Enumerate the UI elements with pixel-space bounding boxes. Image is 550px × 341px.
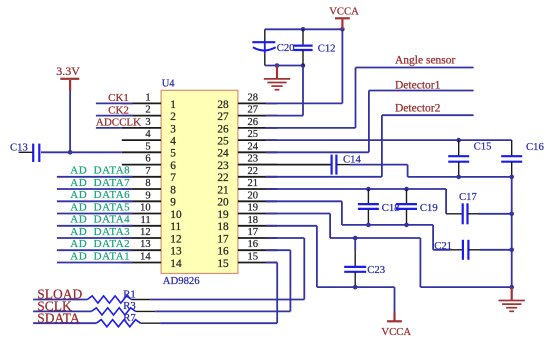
svg-text:C16: C16 — [526, 141, 544, 153]
svg-text:15: 15 — [248, 252, 259, 263]
svg-text:16: 16 — [217, 246, 229, 258]
svg-text:AD DATA5: AD DATA5 — [70, 201, 130, 213]
svg-text:19: 19 — [217, 209, 229, 221]
svg-text:C17: C17 — [459, 191, 477, 203]
svg-text:20: 20 — [248, 190, 259, 201]
svg-text:26: 26 — [248, 117, 259, 128]
svg-text:1: 1 — [170, 99, 176, 111]
svg-text:21: 21 — [217, 184, 228, 196]
svg-text:27: 27 — [217, 111, 229, 123]
svg-text:22: 22 — [217, 172, 229, 184]
svg-text:24: 24 — [217, 148, 229, 160]
svg-text:9: 9 — [170, 197, 176, 209]
svg-text:6: 6 — [170, 160, 176, 172]
svg-text:Angle sensor: Angle sensor — [395, 54, 456, 66]
svg-text:2: 2 — [170, 111, 176, 123]
svg-text:5: 5 — [170, 148, 176, 160]
svg-text:23: 23 — [217, 160, 229, 172]
svg-text:7: 7 — [145, 166, 150, 177]
svg-text:28: 28 — [217, 99, 229, 111]
svg-text:15: 15 — [217, 258, 229, 270]
svg-text:28: 28 — [248, 92, 259, 103]
svg-text:17: 17 — [217, 233, 229, 245]
svg-text:VCCA: VCCA — [329, 6, 359, 18]
svg-text:25: 25 — [217, 136, 229, 148]
svg-text:R3: R3 — [123, 300, 135, 312]
svg-text:27: 27 — [248, 105, 259, 116]
svg-text:20: 20 — [217, 197, 229, 209]
svg-text:6: 6 — [145, 154, 150, 165]
svg-text:4: 4 — [170, 136, 176, 148]
svg-text:C21: C21 — [434, 240, 452, 252]
svg-text:26: 26 — [217, 123, 229, 135]
svg-text:CK1: CK1 — [108, 92, 129, 104]
svg-text:16: 16 — [248, 239, 259, 250]
svg-text:ADCCLK: ADCCLK — [96, 117, 141, 129]
svg-text:11: 11 — [140, 215, 150, 226]
svg-text:AD DATA4: AD DATA4 — [70, 214, 130, 226]
svg-text:AD DATA1: AD DATA1 — [70, 250, 130, 262]
svg-text:25: 25 — [248, 129, 259, 140]
svg-text:22: 22 — [248, 166, 259, 177]
svg-text:18: 18 — [217, 221, 229, 233]
svg-text:CK2: CK2 — [108, 104, 129, 116]
svg-text:C12: C12 — [318, 43, 336, 55]
svg-text:13: 13 — [170, 246, 182, 258]
svg-text:AD DATA2: AD DATA2 — [70, 238, 130, 250]
svg-text:21: 21 — [248, 178, 259, 189]
svg-text:AD DATA6: AD DATA6 — [70, 189, 130, 201]
svg-text:17: 17 — [248, 227, 259, 238]
svg-text:10: 10 — [170, 209, 182, 221]
svg-text:AD9826: AD9826 — [163, 275, 200, 287]
svg-text:8: 8 — [170, 184, 176, 196]
svg-text:10: 10 — [140, 203, 151, 214]
svg-text:C13: C13 — [10, 141, 28, 153]
svg-text:AD DATA3: AD DATA3 — [70, 226, 130, 238]
svg-text:9: 9 — [145, 190, 150, 201]
svg-text:C14: C14 — [343, 154, 361, 166]
svg-text:R7: R7 — [123, 312, 136, 324]
svg-text:Detector2: Detector2 — [395, 103, 441, 115]
svg-text:8: 8 — [145, 178, 150, 189]
svg-text:1: 1 — [145, 92, 150, 103]
svg-text:11: 11 — [170, 221, 181, 233]
svg-text:12: 12 — [140, 227, 151, 238]
svg-text:VCCA: VCCA — [381, 326, 411, 338]
svg-text:7: 7 — [170, 172, 176, 184]
svg-text:Detector1: Detector1 — [395, 79, 441, 91]
svg-text:U4: U4 — [162, 78, 176, 89]
svg-text:C20: C20 — [277, 42, 295, 54]
svg-text:13: 13 — [140, 239, 151, 250]
svg-text:14: 14 — [140, 252, 151, 263]
svg-text:3: 3 — [145, 117, 150, 128]
svg-text:AD DATA8: AD DATA8 — [70, 165, 130, 177]
svg-text:SDATA: SDATA — [37, 310, 80, 325]
svg-text:24: 24 — [248, 141, 259, 152]
svg-text:C15: C15 — [474, 141, 492, 153]
svg-text:AD DATA7: AD DATA7 — [70, 177, 130, 189]
svg-text:4: 4 — [145, 129, 151, 140]
svg-text:23: 23 — [248, 154, 259, 165]
svg-text:C23: C23 — [367, 264, 385, 276]
svg-text:3.3V: 3.3V — [56, 64, 80, 78]
svg-text:18: 18 — [248, 215, 259, 226]
svg-text:12: 12 — [170, 233, 182, 245]
svg-text:3: 3 — [170, 123, 176, 135]
svg-text:2: 2 — [145, 105, 150, 116]
svg-text:5: 5 — [145, 141, 150, 152]
svg-text:R1: R1 — [123, 288, 135, 300]
svg-text:14: 14 — [170, 258, 182, 270]
svg-text:C19: C19 — [420, 202, 438, 214]
svg-text:19: 19 — [248, 203, 259, 214]
